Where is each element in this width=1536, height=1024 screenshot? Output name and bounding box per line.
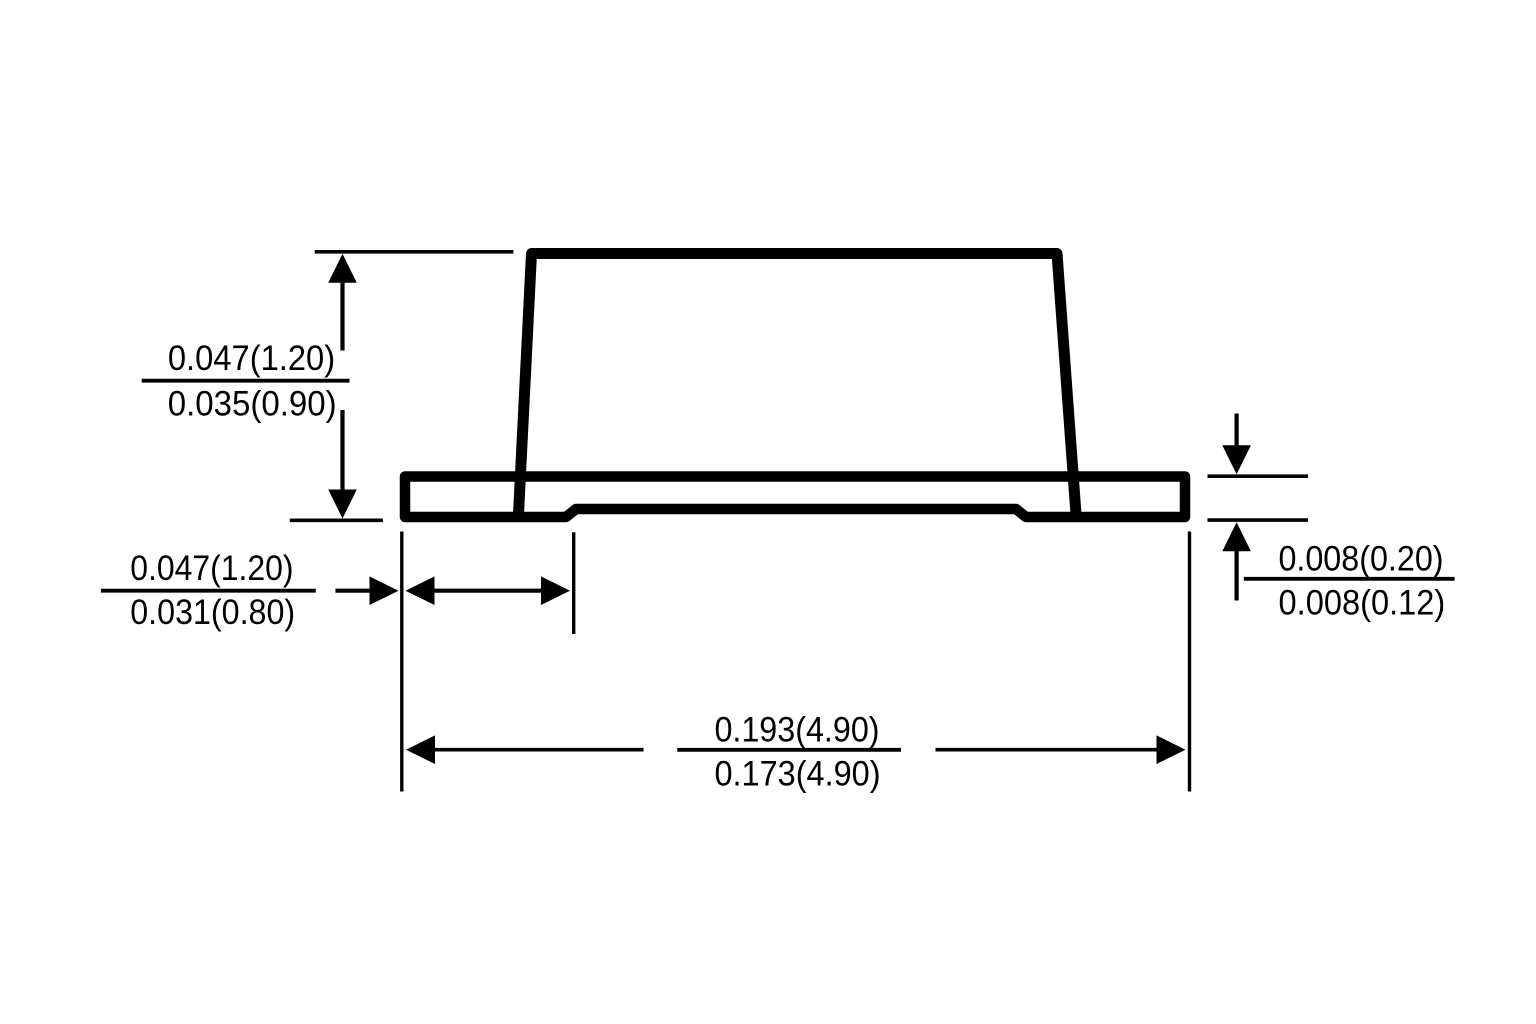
svg-text:0.173(4.90): 0.173(4.90) — [714, 754, 880, 793]
dim thickness fraction bar — [1244, 577, 1455, 581]
dim width left shaft — [433, 748, 644, 752]
svg-text:0.031(0.80): 0.031(0.80) — [130, 593, 295, 632]
dim lead length extension line A — [400, 532, 403, 792]
dim height down arrow — [328, 490, 357, 519]
dim lead length inner left arrow — [406, 576, 435, 605]
svg-text:0.008(0.12): 0.008(0.12) — [1279, 584, 1446, 623]
dim height lower shaft — [340, 410, 344, 491]
dim thickness down arrow — [1222, 445, 1251, 474]
svg-text:0.035(0.90): 0.035(0.90) — [168, 385, 337, 424]
svg-text:0.008(0.20): 0.008(0.20) — [1278, 540, 1443, 579]
dim lead length inner right arrow — [541, 576, 570, 605]
dim thickness extension bottom — [1208, 518, 1309, 522]
svg-text:0.047(1.20): 0.047(1.20) — [130, 549, 293, 588]
dim lead length leader shaft — [336, 589, 372, 593]
dim thickness down shaft — [1234, 414, 1238, 448]
extension line bottom left short — [290, 518, 383, 522]
lead frame strip outline — [405, 477, 1185, 518]
dim thickness up shaft — [1234, 549, 1238, 601]
extension line top of body — [315, 250, 514, 254]
dim height up arrow — [328, 254, 357, 283]
dim thickness extension top — [1208, 474, 1309, 478]
dim height upper shaft — [340, 280, 344, 351]
dim lead length leader arrow — [370, 576, 399, 605]
dim lead length fraction bar — [101, 589, 316, 593]
dim width right shaft — [936, 748, 1157, 752]
dim height fraction bar — [142, 379, 350, 383]
package body outline — [519, 254, 1077, 515]
dim width fraction bar — [677, 748, 901, 752]
dim lead length inner shaft — [432, 589, 543, 593]
dim width left arrow — [406, 735, 435, 764]
dim width right arrow — [1157, 735, 1186, 764]
svg-text:0.193(4.90): 0.193(4.90) — [714, 711, 879, 750]
dim thickness up arrow — [1222, 522, 1251, 551]
svg-text:0.047(1.20): 0.047(1.20) — [168, 339, 335, 378]
dim width extension line right — [1188, 532, 1191, 792]
dim lead length extension line B — [572, 532, 575, 634]
